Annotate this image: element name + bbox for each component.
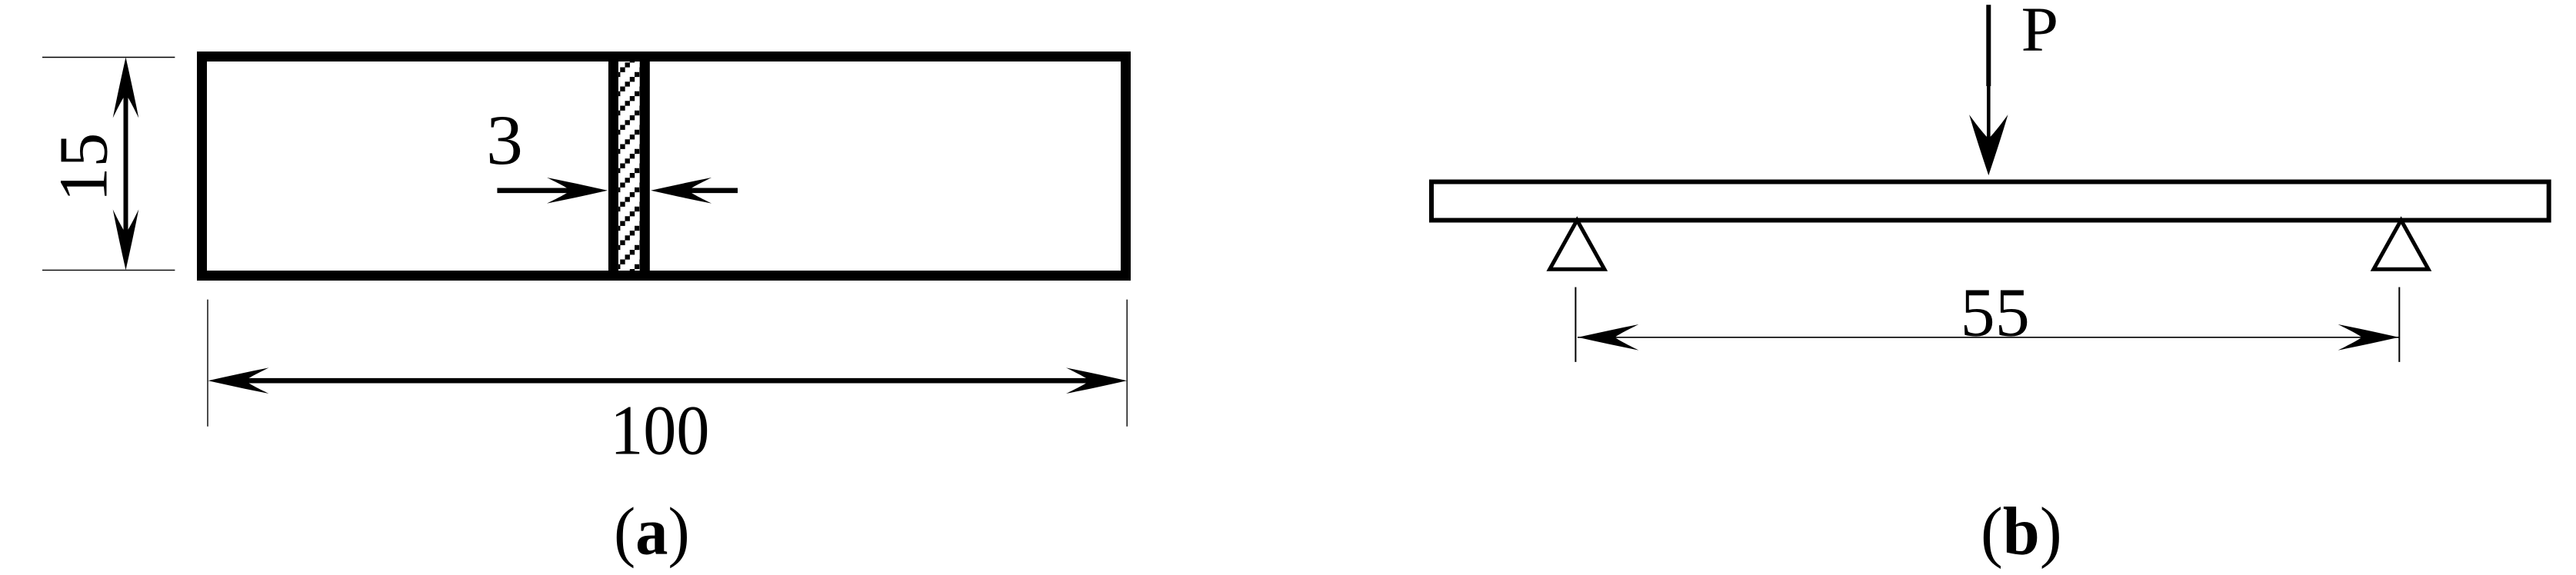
svg-text:55: 55 <box>1961 275 2030 351</box>
svg-text:(b): (b) <box>1981 494 2062 569</box>
svg-text:15: 15 <box>46 133 122 202</box>
dim 100: right arrowhead <box>1066 367 1127 394</box>
svg-text:3: 3 <box>486 101 523 179</box>
dim 55: right extension line <box>2398 287 2400 362</box>
dim 100: dimension line <box>235 378 1100 384</box>
dim 55: left arrowhead <box>1578 324 1638 351</box>
dim 3: left arrow shaft <box>497 188 577 193</box>
specimen outline <box>202 57 1126 276</box>
dim 15: vertical dimension line <box>124 85 128 243</box>
load P: arrowhead <box>1969 115 2008 175</box>
dim 100: right extension line <box>1126 300 1128 427</box>
bondline right bar <box>640 54 650 278</box>
dim 55: right arrowhead <box>2338 324 2399 351</box>
dim 100: left arrowhead <box>208 367 269 394</box>
dim 15: lower arrowhead <box>113 209 139 270</box>
dim 15: upper arrowhead <box>113 58 139 118</box>
right support triangle <box>2374 220 2428 269</box>
left support triangle <box>1550 220 1605 269</box>
bondline left bar <box>608 54 618 278</box>
load P: arrow shaft <box>1986 5 1991 86</box>
dim 55: dimension line <box>1578 337 2399 338</box>
dim 3: right arrowhead <box>651 178 711 204</box>
dim 15: top extension line <box>42 57 175 58</box>
adhesive layer hatch <box>618 61 640 271</box>
dim 55: left extension line <box>1575 287 1576 362</box>
svg-text:100: 100 <box>610 392 709 470</box>
dim 3: left arrowhead <box>547 178 608 204</box>
dim 15: bottom extension line <box>42 269 175 271</box>
svg-text:P: P <box>2021 0 2058 65</box>
dim 100: left extension line <box>207 300 208 427</box>
svg-text:(a): (a) <box>614 494 690 569</box>
dim 3: right arrow shaft <box>681 188 738 193</box>
beam outline <box>1431 182 2549 221</box>
